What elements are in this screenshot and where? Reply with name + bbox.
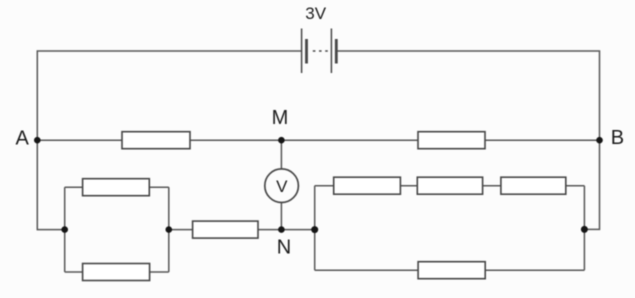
node N <box>277 226 291 258</box>
resistor R6 <box>334 177 401 194</box>
wire right-loop top branch <box>315 185 585 187</box>
resistor R1 <box>122 132 190 149</box>
svg-text:M: M <box>272 107 289 129</box>
svg-text:A: A <box>16 128 30 150</box>
wire middle A to R1 <box>37 139 122 141</box>
wire right-loop left vertical <box>314 186 316 271</box>
junction left-loop left <box>61 226 68 233</box>
wire left-loop bottom branch <box>65 271 169 273</box>
wire top-right segment <box>336 51 599 229</box>
wire R2 to B <box>485 139 600 141</box>
resistor R9 <box>418 262 485 279</box>
svg-text:B: B <box>611 127 624 149</box>
svg-text:V: V <box>276 177 288 196</box>
wire R1 to R2 through M <box>190 139 418 141</box>
battery B1 <box>302 29 337 74</box>
resistor R7 <box>417 177 482 194</box>
svg-text:3V: 3V <box>305 4 326 23</box>
resistor R5 <box>193 221 258 238</box>
junction left-loop right <box>166 226 173 233</box>
svg-text:N: N <box>277 236 291 258</box>
wire top-left segment <box>37 51 301 230</box>
junction right-loop left <box>311 226 318 233</box>
junction right-loop right <box>581 226 588 233</box>
wire R5 to right junction through N <box>258 229 315 231</box>
resistor R2 <box>418 132 485 149</box>
wire loop to R5 <box>169 229 193 231</box>
resistor R4 <box>83 264 150 281</box>
node B <box>596 127 624 149</box>
wire voltmeter to N <box>280 202 282 229</box>
wire right-loop bottom branch <box>315 269 585 271</box>
node M <box>272 107 289 143</box>
wire left-loop left vertical <box>64 187 66 272</box>
resistor R8 <box>501 177 566 194</box>
wire M to voltmeter <box>280 140 282 169</box>
resistor R3 <box>83 179 150 196</box>
wire left-loop right vertical <box>168 187 170 272</box>
node A <box>16 128 41 150</box>
voltmeter V1 <box>265 169 299 203</box>
wire right-loop right vertical <box>583 186 585 271</box>
wire left-loop top branch <box>65 186 169 188</box>
